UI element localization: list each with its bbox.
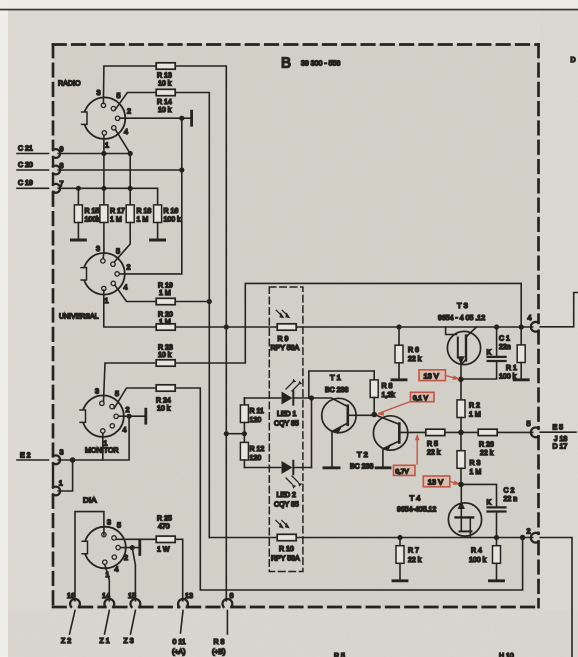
wire LED link vertical [311,398,313,468]
wire riser to pin6 [225,327,227,601]
resistor R26 [478,429,497,457]
wire main bus R20 to R9 [176,326,277,328]
resistor R12 [240,442,264,467]
wire bottom bus (R14 bus corner to pin2) [209,537,277,539]
border bump pin 1 (E2) [53,487,60,496]
terminal bar (R1) [514,378,528,381]
junction dot (R11/R12 mid) [242,431,247,436]
photo resistor R9 [271,310,300,352]
wire DIA pin2 to open contact [121,547,139,549]
wire pin6 tail [226,611,228,635]
node C19 label [17,180,49,188]
resistor R24 [156,385,175,413]
wire R19 right [176,301,209,303]
wire pin5 exit [540,431,576,433]
connector MONITOR [79,387,129,455]
wire RADIO pin4 diagonal [116,130,131,205]
junction dot (LED node) [309,395,314,400]
node C21 label [17,146,49,154]
wire main bus R9 to T3 [296,326,532,328]
wire DIA pin3 to pin16 [75,512,104,601]
resistor R20 [156,312,175,331]
wire R14 right to vertical bus [176,93,209,302]
junction dot (R8 bottom / T1 base) [371,412,377,418]
terminal bar (R7) [393,579,407,582]
annotation 0,1V at T1/T2 [377,392,434,415]
junction dot (mid / pin6 riser) [224,431,229,436]
wire UNIVERSAL pin1 to main bus [104,290,155,327]
terminal bar (T2 emitter) [376,466,390,469]
resistor R15 [74,205,100,224]
junction dot (C1 top) [494,324,499,329]
junction dot (bottom loop) [520,535,526,541]
wire T2 base row to pin5 [426,431,533,433]
wire C20 riser to UNIVERSAL pin2 [120,118,181,274]
wire C19 to R16 top [58,188,157,204]
junction dot (R15 top) [76,186,81,191]
wire R23 row [104,363,156,402]
terminal bar (R15) [71,239,85,242]
wire pin14 tail [105,611,110,635]
wire R24 right down to bottom rail [176,388,522,590]
wire pin16 tail [70,611,76,635]
junction dot (R18 top) [128,186,133,191]
wire UNIVERSAL pin4 to R19 [115,285,155,301]
wire MONITOR pin1 down [102,434,104,460]
resistor R23 [156,345,175,367]
border bump pin 8 [53,166,60,175]
resistor R7 [396,538,422,580]
border bump pin 5 [531,428,539,438]
junction dot (E2 tie) [70,457,76,463]
border bump pin 16 [70,599,80,607]
contact bar (RADIO pin2) [190,111,193,125]
border bump pin 7 [53,184,60,193]
contact bar (DIA pin2) [138,541,141,555]
wire LED1 to T1 collector [293,398,347,407]
resistor R16 [154,205,182,224]
terminal bar (T1 emitter) [324,466,339,469]
connector UNIVERSAL [59,244,131,321]
wire R14 bus continues down [208,302,210,538]
wire C20 [58,169,182,171]
junction dot (bus / pin6 riser) [224,324,229,329]
border bump pin 6 [223,599,233,607]
junction dot (R4/C2 node) [494,535,499,540]
LED 1 CQY85 [274,379,302,428]
module dashed border [53,45,539,608]
junction dot (R2/R3 node) [458,430,464,436]
node E2 label [17,453,49,461]
node C20 label [17,162,49,170]
wire bottom bus R10 to pin2 [296,537,532,539]
contact bar (MONITOR pin2) [144,409,147,423]
wire R18 bottom to UNIVERSAL pin5 [114,223,130,263]
border bump pin 9 [53,149,60,158]
wire E2 pin1 tie [58,460,72,491]
wire pin15 tail [131,611,136,635]
wire MONITOR pin5 to R24 [114,388,155,409]
resistor R19 [156,283,175,305]
net label R8 (+B) [212,639,225,656]
junction dot (pin2 / E2 riser) [127,414,132,419]
annotation 13V at T3 [419,370,460,381]
resistor R25 [156,516,175,554]
junction dot (R19 / bus) [207,299,212,304]
junction dot (pin1 / C21) [101,151,106,156]
resistor R17 [100,205,125,224]
capacitor C1 [461,327,511,379]
border bump pin 13 [178,599,188,607]
wire pin15 drop [132,548,135,601]
junction dot (T4 gate 13V node) [458,482,464,488]
terminal bar (R4) [490,579,504,582]
wire pin4 exit [540,293,578,327]
page top rule [0,9,578,11]
resistor R18 [126,205,151,224]
LED 2 CQY85 [274,461,302,509]
wire DIA pin1 to pin14 [105,565,109,601]
wire LED2 to link [293,467,311,469]
wire R15 top stub [77,188,79,204]
terminal bar (R16) [151,239,165,242]
junction dot (C20) [179,167,184,172]
wire R15 bottom [77,223,79,239]
transistor T2 [350,415,426,471]
resistor R11 [240,398,263,444]
junction dot (T3 source 13V node) [458,377,464,383]
resistor R13 [156,63,175,88]
connector DIA [81,496,128,580]
wire RADIO pin1 down [103,136,105,205]
wire R25 right to pin13 [176,539,183,601]
border bump pin 4 [531,322,539,332]
LED1 feed wire [244,398,280,405]
transistor T4 [397,484,482,537]
junction dot (DIA pin2 / pin15) [130,545,135,550]
resistor R14 [156,89,175,114]
capacitor C2 [461,484,517,537]
LED2 feed wire [244,467,280,469]
border bump pin 3 (E2) [53,455,60,464]
transistor T3 [438,301,485,379]
wire MONITOR pin2 to open contact [119,415,144,417]
border bump pin 15 [130,599,140,607]
junction dot (pin4 / C21) [128,151,133,156]
junction dot (pin1 / C19) [101,186,106,191]
resistor R6 [395,327,422,379]
connector RADIO [58,79,131,150]
wire DIA pin5 to R25 [116,538,155,540]
net label O11 (+A) [172,639,186,656]
border bump pin 2 [531,533,539,543]
wire RADIO pin2 to open contact [120,117,190,119]
wire RADIO pin5 to R14 [115,93,155,110]
resistor R1 [499,327,525,381]
transistor T1 [322,373,374,467]
terminal bar (R6) [392,378,406,381]
opto module dashed box [269,287,303,572]
resistor R3 [457,432,481,484]
annotation 13V at T4 [423,476,460,487]
junction dot (R1 top) [519,324,524,329]
wire R16 bottom [157,223,159,239]
photo resistor R10 [271,520,300,562]
wire RADIO pin3 to R13 [103,66,155,104]
junction dot (R6 top) [396,324,401,329]
wire R17 bottom to UNIVERSAL pin3 [102,223,105,259]
wire pin13 tail [181,611,184,634]
annotation 0,7V at T2 [394,434,420,476]
wire E2 riser [58,416,129,460]
sheet ref B [281,55,340,72]
junction dot (R7 top) [397,535,402,540]
wire mid tie [226,433,244,435]
wire pin2 exit [540,538,572,657]
resistor R4 [469,538,501,580]
junction dot (pin2 / C20 riser) [179,116,184,121]
resistor R5 [426,429,445,456]
border bump pin 14 [104,599,114,607]
resistor R8 [309,371,395,415]
wire R13 right to vertical bus [176,66,226,327]
wire R23 right up and over to T3 column [176,283,521,363]
wire C21 [58,153,130,155]
resistor R2 [457,379,481,432]
